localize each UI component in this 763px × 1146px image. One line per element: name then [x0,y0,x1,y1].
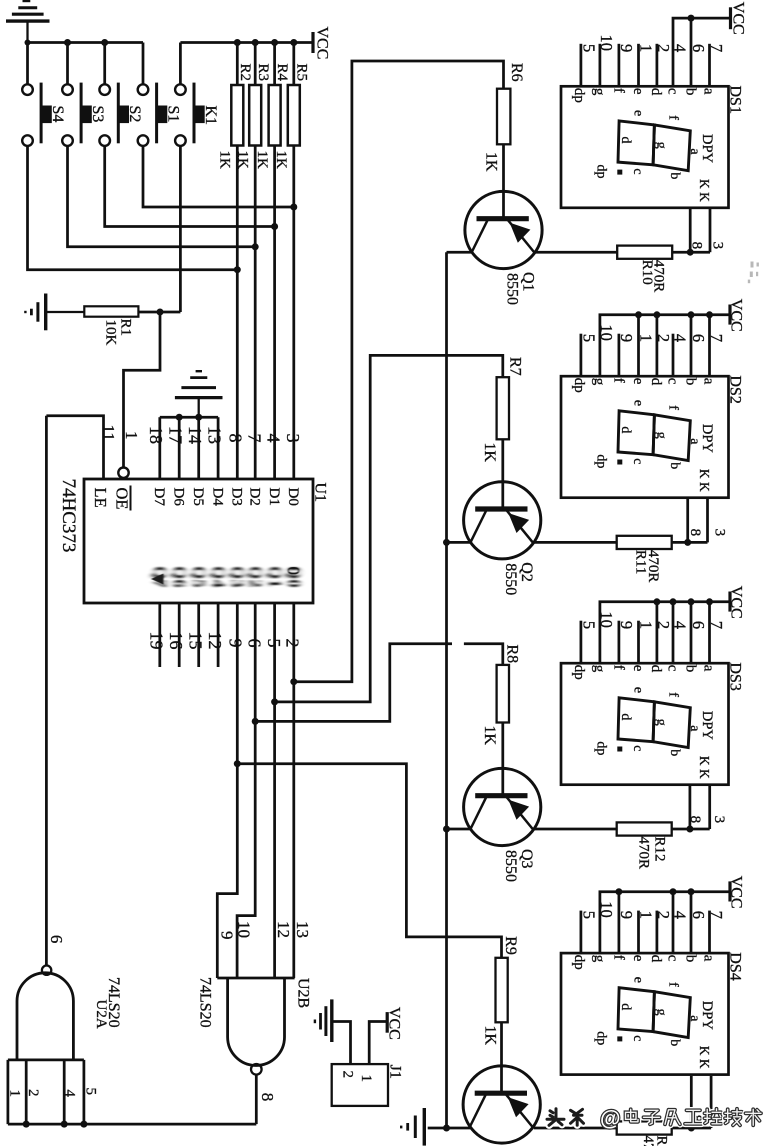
pin 2 label (J1) [340,1071,356,1079]
svg-text:DS2: DS2 [727,375,744,403]
resistor R2 [231,43,243,146]
svg-text:D7: D7 [151,488,167,507]
pin 12 label (U2B) [274,921,293,938]
switch S4 (pushbutton) [22,43,51,146]
pin 9 label (DS2 f) [617,334,636,342]
wire S3 to data column [68,146,256,247]
svg-text:dp: dp [571,378,587,393]
label digit segment dp (DS1) [594,165,609,179]
svg-text:c: c [630,458,645,464]
label segment g (DS4) [591,955,607,963]
svg-text:Q2: Q2 [518,562,535,582]
label digit segment g (DS4) [654,1009,669,1016]
switch S3 (pushbutton) [62,43,91,146]
svg-text:dp: dp [594,165,609,179]
svg-text:K K: K K [697,179,712,202]
svg-text:6: 6 [689,911,708,919]
wire Q4 collector to ground [428,1127,471,1130]
pin 1 stub (DS3 e) [637,621,640,664]
label 470R (R12) [635,837,651,870]
decimal point mark (DS4) [618,1037,622,1041]
label 74LS20 (U2B) [196,977,213,1028]
label segment d (DS2) [648,378,664,386]
wire R7 to Q2 base [501,439,504,509]
junction (rail-S4 corner) [25,40,31,46]
label digit segment d (DS2) [618,426,633,433]
label segment a (DS3) [701,665,717,672]
svg-text:dp: dp [594,741,609,755]
svg-text:DS4: DS4 [727,952,744,980]
label segment b (DS3) [682,665,698,673]
wire pin9 branch to R9 [237,764,501,958]
svg-text:a: a [701,88,717,95]
svg-text:DPY: DPY [699,1001,715,1031]
ground (at J1) [315,999,332,1042]
pin 2 label (DS2 d) [654,334,673,342]
svg-text:a: a [701,955,717,962]
label 1K (R7) [481,443,498,463]
pin 1 label (DS1 e) [636,44,655,52]
label segment e (DS1) [630,88,646,95]
svg-text:4: 4 [671,911,690,919]
label R13 [654,1136,670,1146]
svg-text:e: e [630,665,646,672]
svg-text:0: 0 [284,567,303,576]
transistor Q2 8550 (PNP) [464,482,541,559]
svg-text:VCC: VCC [728,586,745,619]
pin 12 label (U1) [205,632,225,650]
label J1 [387,1065,404,1079]
resistor R11 [617,536,672,549]
junction (U2A pin4) [61,1121,68,1128]
svg-text:g: g [654,719,669,726]
wire R8 to Q3 base [501,723,504,796]
pin 3 stub (display K) [690,208,710,252]
svg-text:b: b [667,749,682,756]
resistor R10 [617,246,672,259]
label S4 [49,106,66,123]
resistor R3 [249,43,261,146]
svg-text:e: e [630,378,646,385]
pin 5 label (DS4 dp) [579,911,598,919]
pin 2 label (DS4 d) [654,911,673,919]
pin 5 label (DS2 dp) [579,334,598,342]
power VCC (DS2) [728,305,731,325]
label D7 (U1 input) [151,488,167,507]
label segment c (DS4) [664,955,680,962]
IC U1 74HC373 box [84,479,313,603]
svg-text:4: 4 [671,334,690,342]
label digit segment f (DS2) [666,405,681,410]
svg-text:3: 3 [711,529,727,537]
label segment dp (DS4) [571,955,587,970]
label 74LS20 (U2A) [105,977,122,1028]
svg-text:R7: R7 [506,357,523,376]
svg-text:R3: R3 [255,64,271,82]
label digit segment f (DS1) [666,115,681,120]
wire U1 pin 9 to U2B input 9 [217,603,237,978]
label digit segment b (DS4) [667,1039,682,1046]
svg-text:S1: S1 [165,106,182,123]
pin 3 label [710,1115,726,1123]
wire U2A output (pin 6) to U1 LE [45,416,48,966]
power VCC (DS3) [728,592,731,612]
pin 3 label [711,529,727,537]
ground (at R1) [25,294,84,331]
svg-text:8: 8 [687,816,703,824]
svg-text:9: 9 [617,911,636,919]
svg-text:6: 6 [47,935,66,944]
label digit segment g (DS1) [654,142,669,149]
svg-text:e: e [630,88,646,95]
junction (S3 net) [252,243,259,250]
scan smudge marks [748,262,759,284]
wire R10 emitter wire [534,251,617,254]
wire R1 to K1 [138,311,180,314]
wire VCC rail (K1, R2-R5 pullups) [180,41,313,44]
pin 10 label (DS1 g) [597,35,616,52]
wire DS2 VCC rail [600,315,729,376]
label R3 [255,64,271,82]
svg-text:e: e [631,687,646,693]
label digit segment c (DS1) [630,168,645,174]
wire S4 to data column [28,146,238,270]
svg-text:Q4: Q4 [209,566,228,588]
svg-text:dp: dp [571,955,587,970]
resistor R1 [84,306,138,316]
label digit segment b (DS2) [667,462,682,469]
svg-text:2: 2 [654,44,673,52]
svg-text:f: f [666,692,681,697]
pin 4 label (DS2 c) [671,334,690,342]
label DS3 [727,662,744,690]
wire U1 pin 6 to U2B input 10 [237,603,255,978]
junction (rail-S3) [64,39,71,46]
label 470R (R11) [645,550,661,583]
pin 5 stub (DS2 dp) [580,334,583,377]
seven-segment digit graphic (DS1) [618,121,690,171]
svg-text:8: 8 [258,1093,277,1102]
label digit segment g (DS3) [654,719,669,726]
pin 5 wire (U2A) [83,1060,86,1124]
label D1 (U1 input) [266,488,282,506]
svg-text:a: a [701,665,717,672]
label 1K (R3) [235,151,251,170]
svg-text:c: c [664,378,680,385]
pin 1 wire (U2A) [7,1060,10,1124]
wire DS4 pin 9 to VCC rail [618,892,621,953]
pin 15 label (U1) [186,632,206,650]
seven-segment digit graphic (DS2) [618,411,690,461]
svg-text:4: 4 [671,44,690,52]
label segment f (DS2) [610,378,626,383]
ground (above U1) [175,371,223,417]
svg-text:6: 6 [689,44,708,52]
label segment c (DS3) [664,665,680,672]
switch S2 (pushbutton) [99,43,128,146]
wire DS3 VCC rail [600,602,729,663]
pin 10 label (DS3 g) [597,611,616,628]
pin 8 stub (display K) [690,1076,693,1128]
junction (S2 net) [271,223,278,230]
junction (DS4 b) [688,888,695,895]
svg-text:S4: S4 [49,106,66,123]
svg-text:f: f [610,665,626,670]
seven-segment digit graphic (DS3) [618,698,690,748]
label DS2 [727,375,744,403]
label segment g (DS3) [591,665,607,673]
svg-text:10: 10 [235,921,254,938]
label 11 (U1 pin) [99,425,118,441]
svg-text:OE: OE [113,488,132,510]
svg-text:VCC: VCC [728,299,745,332]
svg-text:1: 1 [6,1090,22,1098]
svg-text:9: 9 [218,931,237,940]
svg-text:2: 2 [654,334,673,342]
label D3 (U1 input) [229,488,245,506]
label digit segment a (DS3) [687,725,702,732]
svg-text:10K: 10K [103,320,119,346]
svg-text:13: 13 [293,921,312,938]
resistor R13 [617,1121,672,1134]
label digit segment e (DS3) [631,687,646,693]
svg-text:f: f [666,405,681,410]
wire DS4 pin 4 to VCC rail [672,892,675,953]
svg-text:f: f [610,378,626,383]
label DPY (DS2) [699,424,715,454]
wire R12 emitter wire [534,828,617,831]
svg-text:a: a [701,378,717,385]
junction (DS2 b) [688,311,695,318]
svg-text:1K: 1K [481,443,498,463]
svg-text:d: d [618,713,633,720]
svg-text:8550: 8550 [504,273,521,305]
svg-text:470R: 470R [650,260,666,293]
label segment g (DS1) [591,88,607,96]
svg-text:f: f [666,115,681,120]
label D6 (U1 input) [170,488,186,507]
svg-text:g: g [591,955,607,963]
label segment d (DS4) [648,955,664,963]
label 8550 (Q3) [502,850,519,882]
svg-text:12: 12 [274,921,293,938]
pin 5 label (DS3 dp) [579,621,598,629]
label DPY (DS3) [699,711,715,741]
pin 1 label (DS2 e) [636,334,655,342]
svg-text:1K: 1K [217,151,233,170]
power VCC (DS1) [729,7,732,29]
svg-text:1K: 1K [482,152,499,172]
svg-text:Q3: Q3 [228,566,247,588]
label R8 [504,645,521,664]
svg-text:1K: 1K [482,1026,499,1046]
junction (DS3 c) [670,598,677,605]
pin 6 label (DS2 b) [689,334,708,342]
junction (rail-R2) [234,39,241,46]
label digit segment e (DS1) [631,110,646,116]
svg-text:f: f [610,955,626,960]
watermark 头条 @电子及工控技术 [547,1108,761,1131]
wire DS2 pin 1 to VCC rail [637,315,640,376]
svg-text:R5: R5 [293,64,309,82]
svg-text:R13: R13 [654,1136,670,1146]
resistor R4 [269,43,281,146]
svg-text:7: 7 [707,44,726,52]
svg-text:J1: J1 [387,1065,404,1079]
pin 5 label (U2A) [83,1088,99,1096]
label 1K (R6) [482,152,499,172]
label R2 [237,64,253,82]
svg-text:10: 10 [597,901,616,918]
svg-text:d: d [648,378,664,386]
label D5 (U1 input) [190,488,206,506]
transistor Q3 8550 (PNP) [464,768,541,845]
label R7 [506,357,523,376]
svg-text:b: b [667,172,682,179]
svg-text:Q3: Q3 [518,849,535,869]
label segment f (DS3) [610,665,626,670]
svg-text:c: c [664,665,680,672]
svg-text:5: 5 [83,1088,99,1096]
pin 10 stub (DS1 g) [599,44,602,87]
wire R2 column to U1 D3 (pin 8) [236,146,239,480]
pin 5 stub (DS3 dp) [580,621,583,664]
pin 3 label [710,242,726,250]
svg-text:b: b [682,955,698,963]
wire DS4 VCC rail [600,892,729,953]
pin 8 stub (display K) [689,208,692,252]
svg-text:R12: R12 [651,837,667,862]
junction (D5 gnd rail) [195,414,202,421]
label digit segment e (DS4) [631,977,646,983]
wire R3 column to U1 D2 (pin 7) [254,146,257,480]
junction (R12 K node) [686,826,693,833]
svg-text:8: 8 [689,242,705,250]
svg-text:S2: S2 [126,106,143,123]
svg-text:g: g [654,1009,669,1016]
svg-text:19: 19 [147,632,167,650]
svg-text:D6: D6 [170,488,186,507]
pin 2 stub (DS4 d) [656,911,659,954]
junction (S4 net) [234,266,241,273]
svg-text:f: f [610,88,626,93]
svg-text:15: 15 [186,632,206,650]
svg-text:4: 4 [62,1090,78,1098]
svg-text:S3: S3 [89,106,106,123]
svg-text:9: 9 [617,334,636,342]
svg-text:5: 5 [579,44,598,52]
label digit segment dp (DS4) [594,1031,609,1045]
svg-text:7: 7 [244,434,264,443]
label segment b (DS1) [682,88,698,96]
junction (R11 K node) [684,539,691,546]
label R11 [633,550,649,574]
wire S1 to data column [143,146,294,207]
pin 18 label (U1) [146,426,166,444]
svg-text:d: d [648,88,664,96]
pin 14 label (U1) [185,426,205,444]
junction (U2A pin5) [80,1121,87,1128]
wire DS3 pin 6 to VCC rail [690,602,693,663]
label segment a (DS4) [701,955,717,962]
wire R4 column to U1 D1 (pin 4) [273,146,276,480]
label 1K (R2) [217,151,233,170]
ground (top-left earth symbol) [6,1,50,43]
svg-text:K K: K K [697,756,712,779]
pin 9 stub (DS2 f) [618,334,621,377]
junction (pin5 net) [271,698,278,705]
decimal point mark (DS3) [618,747,622,751]
svg-text:g: g [654,432,669,439]
pin 6 label (DS4 b) [689,911,708,919]
pin 13 label (U1) [204,426,224,444]
label digit segment a (DS2) [687,438,702,445]
label digit segment f (DS3) [666,692,681,697]
pin 8 stub (display K) [689,786,692,829]
svg-text:11: 11 [99,425,118,441]
label digit segment c (DS2) [630,458,645,464]
svg-text:K1: K1 [202,106,219,126]
svg-text:c: c [630,168,645,174]
svg-text:dp: dp [571,665,587,680]
label D0 (U1 input) [285,488,301,506]
pin 9 label (U1) [225,639,245,648]
svg-text:6: 6 [689,334,708,342]
svg-text:dp: dp [594,454,609,468]
wire R10 to display K [672,251,690,254]
wire S2 to data column [105,146,275,227]
label D4 (U1 input) [209,488,225,507]
svg-text:1: 1 [636,911,655,919]
label segment dp (DS1) [571,88,587,103]
display DS1 box (DPY 7-seg) [561,86,729,208]
junction (bus-Q2) [443,539,450,546]
label K1 [202,106,219,126]
svg-text:2: 2 [282,639,302,648]
svg-text:74HC373: 74HC373 [58,479,79,553]
svg-text:Q2: Q2 [246,566,265,588]
label segment g (DS2) [591,378,607,386]
label segment a (DS2) [701,378,717,385]
power VCC (J1) [386,1012,389,1033]
svg-text:1: 1 [636,334,655,342]
wire DS2 pin 7 to VCC rail [708,315,711,376]
svg-text:DPY: DPY [699,424,715,454]
pin 5 label (DS1 dp) [579,44,598,52]
switch S1 (pushbutton) [138,43,167,146]
label R4 [274,64,290,82]
svg-text:c: c [664,88,680,95]
junction (pin9 net) [234,760,241,767]
svg-text:14: 14 [185,426,205,444]
svg-text:Q5: Q5 [190,566,209,588]
label K K (DS2) [697,469,712,492]
label DS4 [727,952,744,980]
wire R11 to display K [672,541,688,544]
junction (R1/K1/OE) [157,309,164,316]
svg-text:R4: R4 [274,64,290,82]
wire Q2 collector to bus [447,541,471,544]
junction (pin2 net) [290,678,297,685]
connector J1 box [332,1064,388,1106]
svg-text:13: 13 [204,426,224,444]
svg-text:DS3: DS3 [727,662,744,690]
label segment d (DS3) [648,665,664,673]
pin 2 stub (DS1 d) [656,44,659,87]
pin 4 label (DS4 c) [671,911,690,919]
svg-text:d: d [648,955,664,963]
wire Q1 collector to bus [447,251,473,254]
